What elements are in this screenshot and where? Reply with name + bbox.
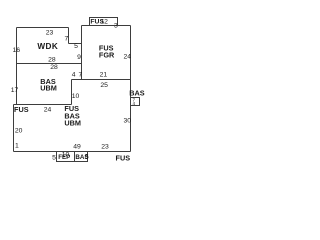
svg-text:24: 24 [124,53,132,60]
svg-text:FUS: FUS [116,153,131,162]
wall FEP porch box [57,152,88,162]
wall FEP BAS divider [74,152,76,162]
svg-text:24: 24 [44,106,52,113]
wall BAS bump box right [131,98,140,106]
svg-text:25: 25 [100,82,108,89]
svg-text:4: 4 [72,71,76,78]
svg-text:23: 23 [46,29,54,36]
svg-text:WDK: WDK [37,42,58,51]
svg-text:10: 10 [72,93,80,100]
wall center vertical [71,80,73,105]
svg-text:28: 28 [50,64,58,71]
svg-text:12: 12 [100,18,108,25]
svg-text:3: 3 [114,23,118,30]
svg-text:5: 5 [52,154,56,161]
svg-text:23: 23 [101,144,109,151]
wall center horizontal [72,79,131,81]
wall left edge lower [13,105,15,152]
svg-text:FGR: FGR [99,51,115,60]
svg-text:10: 10 [62,152,70,159]
wall bottom [14,151,131,153]
svg-text:7: 7 [65,35,69,42]
svg-text:5: 5 [85,154,89,161]
wall main box left [81,26,83,80]
svg-text:17: 17 [11,87,19,94]
svg-text:30: 30 [124,117,132,124]
wall left edge upper [16,28,18,105]
svg-text:7: 7 [79,71,83,78]
wall WDK right upper [68,28,70,44]
wall WDK top [17,27,69,29]
wall lower dividing line [14,104,72,106]
svg-text:16: 16 [13,47,21,54]
svg-text:21: 21 [100,71,108,78]
svg-text:UBM: UBM [64,119,81,128]
svg-text:5: 5 [74,43,78,50]
svg-text:FUS: FUS [14,105,29,114]
svg-text:9: 9 [77,54,81,61]
svg-text:4: 4 [133,101,136,106]
wall main box top [82,25,131,27]
svg-text:1: 1 [15,143,19,150]
wall small FUS bump box [90,18,118,26]
svg-text:UBM: UBM [40,84,57,93]
wall dividing line 28 [17,63,82,65]
svg-text:20: 20 [15,128,23,135]
svg-text:28: 28 [48,57,56,64]
wall jog WDK to main [69,43,82,45]
svg-text:BAS: BAS [129,88,145,97]
svg-text:49: 49 [73,144,81,151]
wall right edge [130,26,132,152]
